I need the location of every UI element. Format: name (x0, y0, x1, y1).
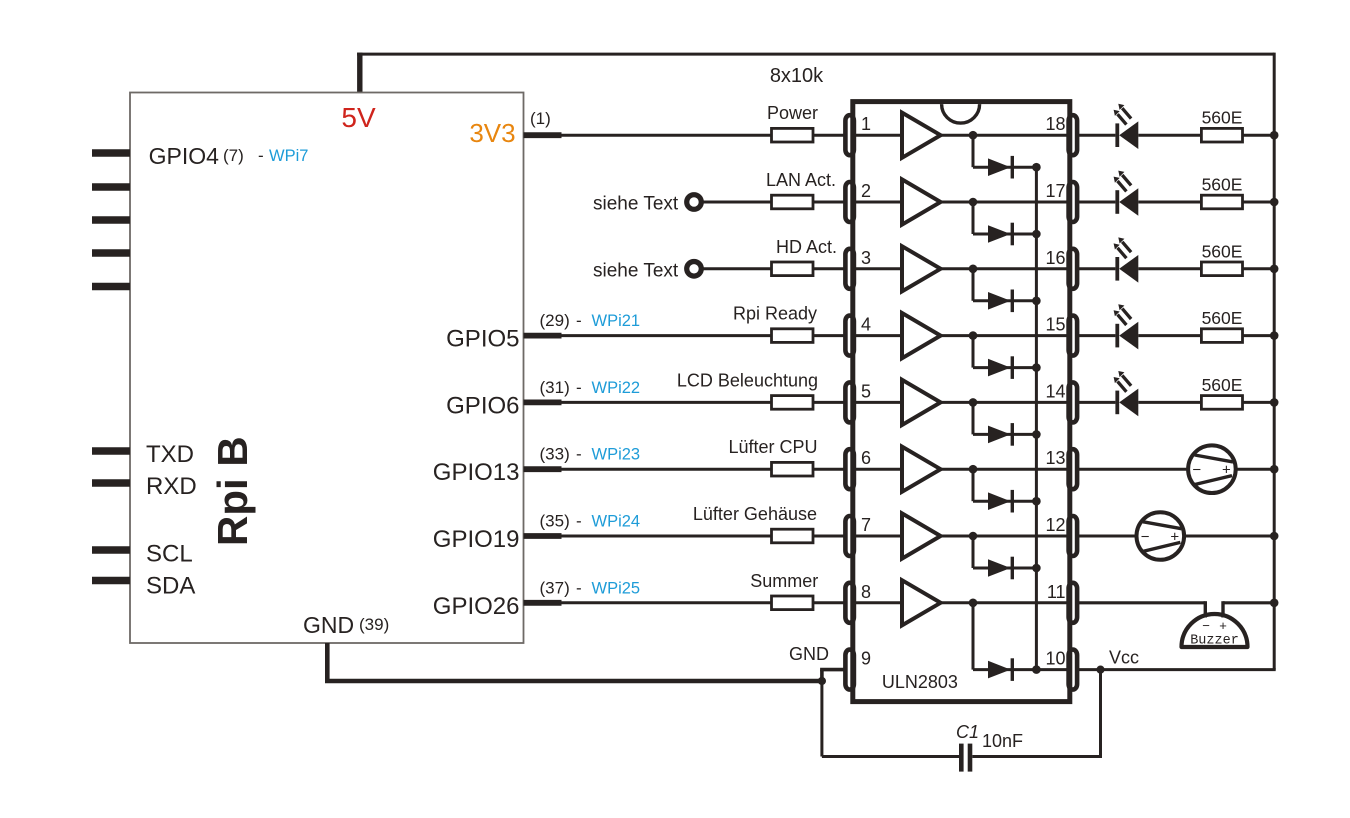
svg-text:GPIO4: GPIO4 (149, 143, 220, 169)
svg-text:(31): (31) (540, 378, 570, 397)
svg-text:(1): (1) (530, 109, 551, 128)
svg-text:LCD Beleuchtung: LCD Beleuchtung (677, 370, 818, 390)
svg-text:WPi23: WPi23 (592, 446, 641, 464)
svg-text:RXD: RXD (146, 473, 197, 500)
svg-text:−: − (1202, 618, 1210, 633)
svg-text:WPi24: WPi24 (592, 513, 641, 531)
svg-text:SDA: SDA (146, 573, 195, 600)
svg-text:GND: GND (789, 644, 829, 664)
svg-text:12: 12 (1045, 515, 1065, 535)
svg-text:560E: 560E (1202, 175, 1243, 195)
svg-text:6: 6 (861, 448, 871, 468)
svg-text:+: + (1222, 462, 1231, 479)
svg-text:WPi25: WPi25 (592, 579, 641, 597)
svg-text:Rpi B: Rpi B (209, 436, 256, 546)
svg-text:Lüfter Gehäuse: Lüfter Gehäuse (693, 504, 817, 524)
svg-text:+: + (1219, 618, 1227, 633)
svg-text:8: 8 (861, 582, 871, 602)
svg-text:−: − (1141, 529, 1150, 546)
svg-text:WPi22: WPi22 (592, 379, 641, 397)
svg-text:3: 3 (861, 248, 871, 268)
svg-text:SCL: SCL (146, 541, 193, 568)
svg-text:8x10k: 8x10k (770, 65, 824, 87)
svg-text:Power: Power (767, 103, 818, 123)
svg-text:13: 13 (1045, 448, 1065, 468)
svg-text:560E: 560E (1202, 108, 1243, 128)
svg-text:560E: 560E (1202, 241, 1243, 261)
svg-text:7: 7 (861, 515, 871, 535)
svg-text:18: 18 (1045, 114, 1065, 134)
svg-text:-: - (576, 311, 582, 330)
svg-text:15: 15 (1045, 315, 1065, 335)
svg-text:-: - (576, 445, 582, 464)
svg-text:(29): (29) (540, 311, 570, 330)
svg-text:TXD: TXD (146, 441, 194, 468)
svg-text:GPIO5: GPIO5 (446, 326, 519, 353)
svg-text:10: 10 (1045, 649, 1065, 669)
svg-text:Buzzer: Buzzer (1190, 634, 1239, 649)
svg-text:GPIO6: GPIO6 (446, 392, 519, 419)
svg-text:2: 2 (861, 181, 871, 201)
svg-text:-: - (576, 378, 582, 397)
svg-text:9: 9 (861, 649, 871, 669)
svg-text:LAN Act.: LAN Act. (766, 170, 836, 190)
svg-text:(37): (37) (540, 578, 570, 597)
svg-text:-: - (576, 578, 582, 597)
svg-text:560E: 560E (1202, 308, 1243, 328)
svg-text:5V: 5V (341, 102, 376, 133)
svg-text:(7): (7) (223, 146, 244, 165)
svg-text:16: 16 (1045, 248, 1065, 268)
svg-text:(35): (35) (540, 512, 570, 531)
svg-text:5: 5 (861, 381, 871, 401)
svg-text:Rpi Ready: Rpi Ready (733, 304, 817, 324)
svg-text:10nF: 10nF (982, 731, 1023, 751)
svg-text:3V3: 3V3 (469, 118, 515, 148)
svg-text:WPi21: WPi21 (592, 312, 641, 330)
svg-text:(39): (39) (359, 615, 389, 634)
svg-text:560E: 560E (1202, 375, 1243, 395)
svg-text:HD Act.: HD Act. (776, 237, 837, 257)
svg-text:(33): (33) (540, 445, 570, 464)
svg-text:ULN2803: ULN2803 (882, 672, 958, 692)
svg-text:-: - (576, 512, 582, 531)
svg-text:GPIO13: GPIO13 (433, 459, 520, 486)
svg-text:GPIO26: GPIO26 (433, 593, 520, 620)
svg-text:siehe Text: siehe Text (593, 194, 679, 215)
svg-text:C1: C1 (956, 722, 979, 742)
svg-text:11: 11 (1047, 582, 1066, 602)
svg-text:Lüfter CPU: Lüfter CPU (728, 437, 817, 457)
svg-text:4: 4 (861, 315, 871, 335)
svg-text:17: 17 (1045, 181, 1065, 201)
svg-text:-: - (258, 146, 264, 165)
svg-text:WPi7: WPi7 (269, 147, 308, 165)
svg-text:−: − (1192, 462, 1201, 479)
svg-text:+: + (1170, 529, 1179, 546)
svg-text:14: 14 (1045, 381, 1065, 401)
svg-text:Vcc: Vcc (1109, 648, 1139, 668)
svg-text:1: 1 (861, 114, 871, 134)
svg-text:Summer: Summer (750, 571, 818, 591)
svg-text:siehe Text: siehe Text (593, 260, 679, 281)
svg-text:GND: GND (303, 612, 354, 638)
svg-text:GPIO19: GPIO19 (433, 526, 520, 553)
